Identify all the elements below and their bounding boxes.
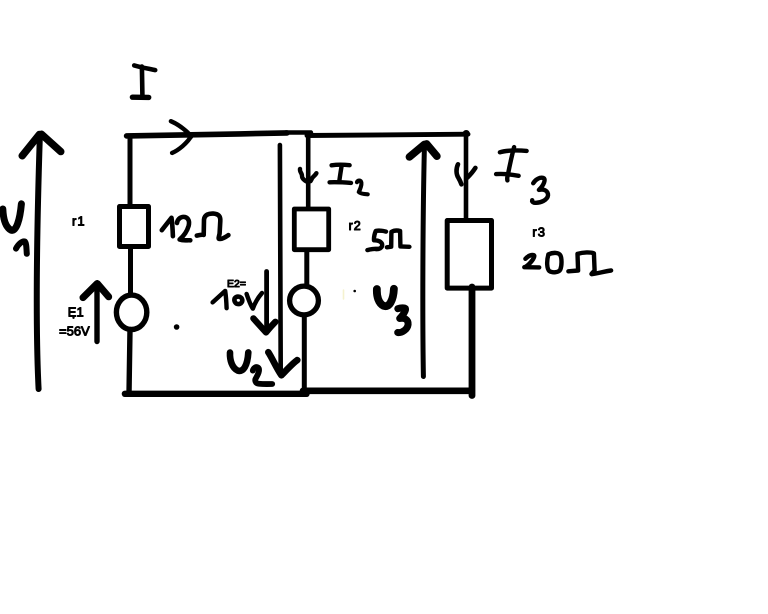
arrow I3 head on right branch [457, 164, 476, 184]
wire E2 to bottom [302, 318, 307, 393]
svg-text:r2: r2 [349, 219, 362, 233]
arrow U3 head [409, 144, 437, 157]
resistor r3 [447, 221, 491, 289]
arrow U3 line [423, 147, 425, 377]
wire r1 to E1 [128, 249, 133, 296]
wire top left segment [127, 133, 287, 136]
label 10V handwritten [213, 291, 227, 308]
faint yellow dash [343, 290, 345, 299]
resistor r2 [294, 209, 328, 250]
svg-text:=56V: =56V [59, 324, 90, 339]
arrow E2 head [253, 318, 275, 332]
junction blob top right [463, 130, 470, 137]
wire top middle jog [286, 130, 311, 134]
label U3 handwritten U [377, 289, 394, 306]
arrow E1 head [83, 284, 109, 298]
svg-text:E2=: E2= [227, 278, 246, 290]
stray dot left [174, 324, 180, 330]
arrow I on top wire [171, 121, 191, 153]
wire r3 to bottom [469, 287, 476, 396]
source E2 circle [290, 286, 319, 315]
arrow U1 line [37, 138, 40, 390]
arrow U2 hook head [268, 352, 297, 375]
wire left branch upper [128, 137, 133, 206]
label 12 ohm handwritten [162, 218, 173, 236]
wire bottom right segment [303, 387, 472, 394]
arrow I2 head on middle branch [300, 169, 316, 182]
svg-text:r1: r1 [72, 213, 86, 228]
arrow U2 line [278, 145, 283, 369]
svg-text:E1: E1 [68, 305, 84, 320]
wire E1 to bottom [129, 330, 130, 395]
source E1 circle [116, 295, 146, 329]
label I3 handwritten [500, 150, 527, 152]
label I2 handwritten [332, 162, 350, 167]
arrow E1 line [94, 285, 99, 342]
arrow U1 head [22, 134, 61, 156]
resistor r1 [120, 207, 149, 247]
wire middle branch upper [306, 134, 311, 208]
arrow E2 line [264, 272, 269, 332]
wire r2 to E2 [304, 252, 309, 287]
label I handwritten [134, 65, 155, 70]
label U1 subscript 1 [16, 241, 27, 253]
label U1 handwritten U [3, 204, 22, 230]
label U2 subscript 2 [253, 367, 272, 384]
tiny dot [353, 290, 356, 293]
label U2 handwritten U [230, 352, 248, 371]
dot under E1 [72, 317, 74, 319]
wire bottom left segment [125, 391, 307, 397]
wire right branch upper [464, 135, 469, 220]
label U3 subscript 3 [398, 308, 408, 333]
label 20 ohm handwritten [524, 255, 539, 267]
label 5 ohm handwritten [367, 231, 386, 250]
wire top right segment [307, 134, 468, 135]
svg-text:r3: r3 [532, 224, 546, 239]
